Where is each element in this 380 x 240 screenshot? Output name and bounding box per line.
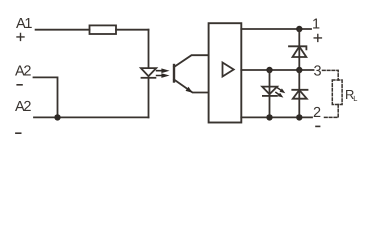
output line 3	[241, 69, 313, 71]
polarity + for 1	[314, 34, 321, 41]
polarity - for A2 lower	[16, 132, 21, 134]
phototransistor Q1 base bar	[173, 65, 175, 82]
polarity - for A2 upper	[17, 84, 22, 86]
svg-text:3: 3	[314, 63, 322, 79]
amplifier triangle	[223, 63, 234, 77]
load resistor RL dashed box	[332, 80, 342, 105]
phototransistor collector	[174, 55, 209, 67]
freewheel diode D4 branch wire	[298, 70, 300, 117]
zener branch wire	[298, 29, 300, 70]
wire A1 to resistor	[36, 29, 90, 31]
status LED D3 branch wire	[269, 70, 271, 117]
resistor R1	[90, 25, 117, 34]
polarity + for A1	[17, 33, 24, 40]
junction line2 diode branch	[296, 114, 302, 120]
output line 2	[241, 116, 312, 118]
wire resistor to corner	[116, 29, 149, 31]
status LED D3	[262, 87, 277, 95]
junction line2 LED branch	[266, 114, 272, 120]
emitter arrowhead	[186, 87, 193, 93]
wire LED cathode down	[148, 78, 150, 118]
wire A2 upper	[34, 77, 58, 117]
zener diode D2	[289, 46, 306, 49]
output line 1	[241, 28, 311, 30]
junction A2 rail	[54, 114, 60, 120]
junction line3 LED branch	[266, 67, 272, 73]
svg-text:L: L	[353, 94, 357, 103]
status LED arrows	[275, 87, 285, 98]
dashed wire RL to 2	[323, 105, 339, 118]
wire down to LED anode	[148, 30, 150, 68]
opto light arrows	[156, 68, 170, 78]
LED D1 (input LED)	[141, 68, 156, 76]
freewheel diode D4	[292, 89, 307, 91]
wire A2 lower rail	[34, 116, 149, 118]
junction line3 diode branch	[296, 67, 302, 73]
svg-text:1: 1	[312, 17, 320, 33]
dashed wire 3 to RL	[323, 70, 339, 80]
svg-text:2: 2	[313, 105, 321, 121]
svg-text:A1: A1	[16, 16, 32, 32]
amplifier box U1	[209, 23, 242, 122]
polarity - for 2	[316, 125, 320, 127]
junction on line 1	[296, 26, 302, 32]
phototransistor emitter	[174, 80, 209, 93]
svg-text:A2: A2	[15, 99, 31, 115]
svg-text:A2: A2	[15, 63, 31, 79]
